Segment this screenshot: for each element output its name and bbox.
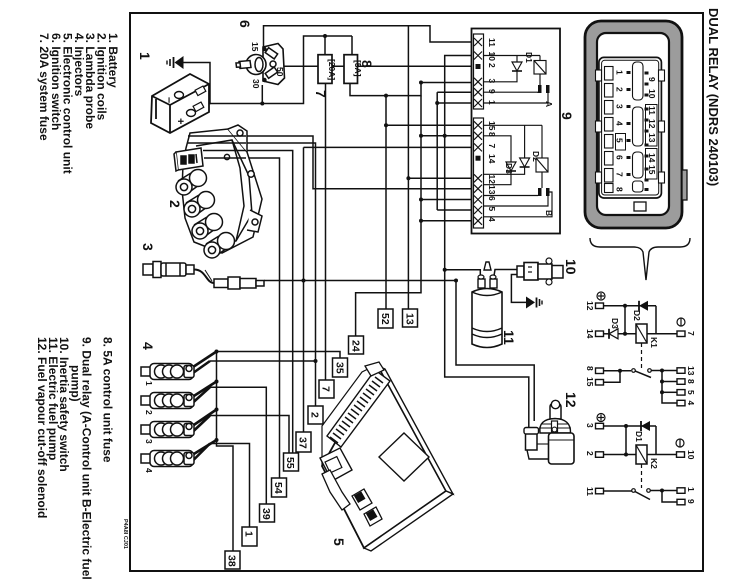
svg-text:K1: K1 <box>649 337 659 348</box>
diode D1 <box>483 56 540 82</box>
wire coil to 7 <box>647 333 677 335</box>
svg-text:11: 11 <box>501 330 517 345</box>
svg-text:12: 12 <box>563 392 579 408</box>
wire switch50 to pin2 <box>280 65 472 67</box>
terminal 12 <box>596 303 604 309</box>
svg-text:38: 38 <box>226 555 238 567</box>
wire box52 from fuse8 node <box>385 96 387 309</box>
svg-text:3: 3 <box>615 104 625 109</box>
svg-text:A: A <box>544 101 554 107</box>
coil lead overlays <box>188 136 246 158</box>
wire number box 54 <box>272 478 287 497</box>
wire pin12 tee <box>408 177 471 179</box>
svg-text:24: 24 <box>350 340 362 352</box>
contact output tree K2 <box>651 490 678 492</box>
ignition coils L2 <box>167 125 262 258</box>
wire coil to pin13 <box>219 136 472 189</box>
svg-text:10: 10 <box>487 52 497 62</box>
lambda probe B3 <box>140 243 264 289</box>
coil connector <box>174 148 203 171</box>
terminal 8b <box>677 379 685 385</box>
relay coil A <box>534 56 546 86</box>
svg-text:8: 8 <box>615 187 625 192</box>
svg-text:11: 11 <box>585 487 595 496</box>
wire number box 52 <box>378 309 393 328</box>
lamp symbol 10 <box>676 439 684 447</box>
svg-text:15: 15 <box>585 377 595 387</box>
terminal 5 <box>677 390 685 396</box>
wire number box 37 <box>296 432 311 452</box>
svg-text:–: – <box>163 97 175 103</box>
relay K2 schematic <box>585 414 696 505</box>
wire inj4 pair <box>193 440 217 455</box>
svg-text:13: 13 <box>404 313 416 325</box>
wire injector trunk to box38 <box>217 352 234 552</box>
terminal 1 <box>677 488 685 494</box>
svg-text:7: 7 <box>615 172 625 177</box>
svg-text:11: 11 <box>647 106 657 115</box>
relay socket pin numbers 9-15 <box>647 77 657 175</box>
svg-text:55: 55 <box>284 457 296 469</box>
frame border <box>130 13 703 571</box>
wire number box 7 <box>319 380 334 398</box>
svg-text:6: 6 <box>237 20 253 28</box>
svg-text:10: 10 <box>647 89 657 99</box>
svg-text:1: 1 <box>243 531 255 537</box>
svg-text:3: 3 <box>144 439 154 444</box>
coil K1 <box>636 324 647 343</box>
wire coil to box54 <box>225 158 280 478</box>
wire number box 1 <box>242 527 257 546</box>
vertical link <box>624 306 626 334</box>
svg-text:1: 1 <box>686 487 696 492</box>
wire box37 vertical <box>303 147 305 432</box>
wire number box 35 <box>333 358 348 377</box>
lamp symbol 7 <box>677 318 685 326</box>
wire inj3 pair <box>193 410 217 426</box>
svg-text:14: 14 <box>647 153 657 163</box>
legend items 1-7 <box>37 33 120 174</box>
terminal 11 <box>596 488 604 494</box>
coil towers <box>176 170 235 259</box>
svg-text:D2: D2 <box>632 310 642 321</box>
battery B1 <box>137 52 209 133</box>
wire fuse7 top stub <box>324 36 326 55</box>
svg-text:4: 4 <box>144 468 154 473</box>
fuel vapour cut-off solenoid Y12 <box>524 392 579 464</box>
ground (pump) <box>526 297 542 309</box>
svg-text:+: + <box>174 118 186 124</box>
svg-text:5: 5 <box>487 207 497 212</box>
terminal 4 <box>677 400 685 406</box>
svg-text:7: 7 <box>313 90 329 98</box>
svg-text:D3: D3 <box>504 163 514 174</box>
diode D2 <box>483 125 542 174</box>
injector 4 <box>141 451 194 467</box>
svg-text:9: 9 <box>686 499 696 504</box>
svg-text:2: 2 <box>487 63 497 68</box>
wire fuse7 bottom to box 7 <box>325 83 327 380</box>
svg-text:37: 37 <box>297 437 309 449</box>
svg-text:14: 14 <box>487 154 497 164</box>
vertical link K2 <box>625 426 627 455</box>
wire inertia to ground <box>511 275 526 303</box>
svg-text:11: 11 <box>487 38 497 47</box>
wire number box 38 <box>225 551 240 569</box>
terminal 9 <box>677 499 685 505</box>
injector 1 <box>141 364 194 380</box>
relay socket pin numbers 1-8 <box>615 70 625 192</box>
pin strip B <box>474 118 484 228</box>
wire injector rail to box35 <box>217 352 341 359</box>
svg-text:D1: D1 <box>524 52 534 63</box>
relay bracket brace <box>590 238 690 280</box>
wire number box 39 <box>260 504 275 522</box>
wire number box 2 <box>308 406 323 424</box>
contact blade K2 <box>604 490 633 492</box>
svg-text:15: 15 <box>250 42 260 52</box>
svg-text:12: 12 <box>585 301 595 311</box>
terminal 3 <box>596 423 604 429</box>
relay socket centre slots <box>633 62 644 192</box>
svg-text:1: 1 <box>615 70 625 75</box>
svg-text:35: 35 <box>334 362 346 374</box>
svg-text:2: 2 <box>144 410 154 415</box>
inertia safety switch S10 <box>517 258 579 285</box>
svg-text:7: 7 <box>686 331 696 336</box>
svg-text:12: 12 <box>487 175 497 185</box>
electric fuel pump M11 <box>472 262 517 348</box>
svg-text:P4A8I CJ01: P4A8I CJ01 <box>122 519 128 549</box>
svg-text:3: 3 <box>140 243 156 251</box>
terminal 2 <box>596 452 604 458</box>
terminal 14 <box>596 331 604 337</box>
svg-text:12. Fuel vapour cut-off solen: 12. Fuel vapour cut-off solenoid <box>35 337 49 518</box>
svg-text:6: 6 <box>487 196 497 201</box>
connector bars A <box>483 85 554 107</box>
svg-text:15: 15 <box>647 165 657 175</box>
svg-text:6: 6 <box>615 155 625 160</box>
svg-text:8: 8 <box>359 60 375 68</box>
wire number box 55 <box>284 453 299 471</box>
svg-text:39: 39 <box>260 508 272 520</box>
svg-text:8: 8 <box>585 366 595 371</box>
wire fuse8 top stub <box>351 36 353 55</box>
svg-text:10: 10 <box>563 259 579 275</box>
dashed actuator K1 <box>641 343 643 368</box>
svg-text:8. 5A control unit fuse: 8. 5A control unit fuse <box>101 337 115 463</box>
terminal 7 <box>677 331 685 337</box>
svg-text:4: 4 <box>140 342 156 350</box>
wire trunk to box 13 <box>407 26 409 309</box>
legend items 8-12 <box>35 337 115 580</box>
wire switch15 to top trunk to pin11 <box>264 26 472 47</box>
svg-text:9: 9 <box>647 77 657 82</box>
wire battery ground link <box>184 63 211 104</box>
svg-text:5: 5 <box>686 390 696 395</box>
svg-text:DUAL RELAY (NDRS 240103): DUAL RELAY (NDRS 240103) <box>706 8 721 186</box>
wire pin8 tee <box>421 135 472 137</box>
svg-text:1: 1 <box>144 381 154 386</box>
svg-text:7: 7 <box>320 386 332 392</box>
wire solenoid feed B <box>456 281 534 422</box>
fuse F7 20A <box>313 55 337 98</box>
wire coil to 10 <box>647 454 677 456</box>
wire coil to box55 <box>223 151 293 454</box>
svg-text:5: 5 <box>331 538 347 546</box>
wire 3 to diode <box>604 425 657 427</box>
diode D3 (K1) <box>604 333 610 335</box>
terminal 8 <box>596 368 604 374</box>
wire pin15 tee <box>386 124 472 126</box>
wire pump trunk from pin10 <box>445 56 472 270</box>
svg-text:10: 10 <box>686 450 696 460</box>
fuse F8 5A <box>344 55 375 84</box>
plus symbol K1 <box>597 292 605 300</box>
electronic control unit U5 <box>320 362 453 551</box>
svg-text:7: 7 <box>487 144 497 149</box>
terminal 10 <box>677 452 685 458</box>
terminal 15 <box>596 380 604 386</box>
svg-text:13: 13 <box>487 185 497 195</box>
wire number box 24 <box>349 336 364 354</box>
svg-text:9: 9 <box>559 112 575 120</box>
svg-text:14: 14 <box>585 329 595 339</box>
svg-text:5: 5 <box>615 138 625 143</box>
injector 3 <box>141 422 194 438</box>
svg-text:13: 13 <box>686 366 696 376</box>
svg-text:54: 54 <box>272 482 284 494</box>
svg-text:7. 20A system fuse: 7. 20A system fuse <box>37 33 51 141</box>
wire coil to box2 trunk <box>221 143 316 406</box>
relay socket tick contacts <box>627 71 649 191</box>
wire inj2 pair <box>193 382 217 397</box>
junction dots <box>215 34 459 442</box>
svg-text:[20A]: [20A] <box>327 59 337 80</box>
connector bars B <box>483 188 554 217</box>
diode D2 (K1) <box>625 305 656 307</box>
wire battery+ to switch30 and fuses <box>207 36 352 104</box>
diode D3 <box>483 136 516 185</box>
wire node to box24 <box>356 96 421 336</box>
svg-text:4: 4 <box>686 401 696 406</box>
svg-text:2: 2 <box>167 200 183 208</box>
pin strip A <box>474 34 484 109</box>
dashed actuator K2 <box>641 464 643 488</box>
svg-text:50: 50 <box>275 67 285 77</box>
svg-text:8: 8 <box>686 379 696 384</box>
pins group B: 15 8 7 14 12 13 6 5 4 <box>474 121 482 225</box>
svg-text:2: 2 <box>585 451 595 456</box>
terminal 13 <box>677 368 685 374</box>
contact feed wires <box>604 370 632 372</box>
ground (battery) <box>167 56 184 69</box>
coil K2 <box>636 445 647 464</box>
relay coil B <box>536 125 548 188</box>
svg-text:12: 12 <box>647 119 657 129</box>
wire pin9/pin1/pin5 vertical <box>436 92 438 210</box>
svg-text:D1: D1 <box>634 431 644 442</box>
wire inj1 pair <box>193 352 217 368</box>
svg-text:D3: D3 <box>610 318 620 329</box>
svg-text:2: 2 <box>615 87 625 92</box>
svg-text:30: 30 <box>251 79 261 89</box>
svg-text:K2: K2 <box>649 458 659 469</box>
wire switch30 drop <box>261 85 263 104</box>
svg-text:4: 4 <box>615 121 625 126</box>
relay socket slots column (left) <box>605 67 614 193</box>
contact output tree K1 <box>652 370 678 372</box>
wire 12 to coil node <box>604 305 626 307</box>
dual relay connector (pictorial) <box>585 21 687 228</box>
plus symbol K2 <box>597 414 605 422</box>
wire pin6 tee <box>421 199 472 201</box>
svg-text:1: 1 <box>137 52 153 60</box>
wire solenoid feed A <box>445 270 529 428</box>
svg-text:52: 52 <box>379 313 391 325</box>
contact blade K1 <box>632 369 636 373</box>
svg-text:13: 13 <box>647 133 657 143</box>
wire inertia to pump <box>494 270 519 280</box>
svg-text:B: B <box>544 210 554 216</box>
svg-text:9: 9 <box>487 89 497 94</box>
connector block 9 <box>472 29 576 234</box>
wire number box 13 <box>403 309 418 327</box>
pins group A: 11 10 2 3 9 1 <box>474 38 482 107</box>
svg-text:2: 2 <box>309 412 321 418</box>
wire lambda probe output <box>264 280 456 282</box>
group outline boxes <box>646 105 658 147</box>
injector 2 <box>141 393 194 409</box>
wire fuse8 bottom to pin3 <box>350 78 472 96</box>
svg-text:4: 4 <box>487 217 497 222</box>
ignition switch S6 <box>236 20 285 89</box>
svg-text:3: 3 <box>487 79 497 84</box>
wire pin7 from box37 line <box>304 146 472 148</box>
diode D1 (K2) <box>641 421 650 431</box>
wire pin4 tee <box>421 220 472 222</box>
relay K1 schematic <box>585 292 696 406</box>
wire 2 to coil <box>604 454 637 456</box>
svg-text:3: 3 <box>585 423 595 428</box>
